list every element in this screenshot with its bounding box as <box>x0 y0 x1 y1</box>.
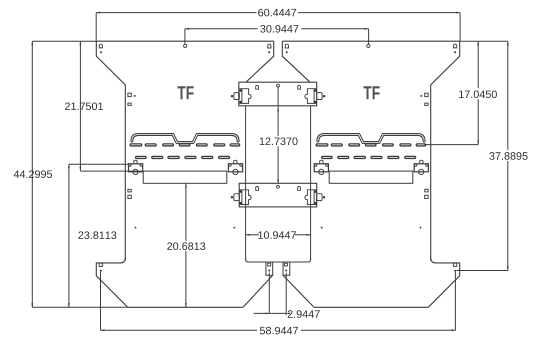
left step screw dot <box>100 270 102 272</box>
dim 21.7501 line <box>79 41 81 171</box>
neck column left wall <box>245 106 247 260</box>
dim 21.7501 text <box>65 102 103 110</box>
middle block clip inner bar <box>313 190 315 204</box>
middle block clip outer dot <box>323 196 325 198</box>
left edge lower mark 2 <box>128 195 131 198</box>
dim 37.8895 line bottom seg <box>507 161 509 271</box>
center tab right dot <box>285 270 287 272</box>
dim 30.9447 ext left <box>184 29 186 45</box>
dim 37.8895 top ext <box>478 40 508 42</box>
left wing inner belt clamp body <box>228 164 242 172</box>
dim 17.0450 arrow top <box>477 41 479 45</box>
dim 17.0450 text <box>459 90 497 98</box>
dim 2.9447 arrow right <box>286 312 290 314</box>
right plate hole dot B <box>321 227 323 229</box>
right wing outer belt clamp right hole <box>426 164 429 167</box>
right wing inner belt clamp body <box>314 164 328 172</box>
middle block block screw hole right <box>298 187 301 191</box>
dim 60.4447 line right seg <box>298 12 460 14</box>
dim 60.4447 ext left <box>95 13 97 42</box>
dim 20.6813 line bottom seg <box>185 251 187 307</box>
middle block clip frame <box>305 190 317 205</box>
dim 37.8895 arrow top <box>507 41 509 45</box>
dim 21.7501 ext <box>80 170 143 172</box>
part outline: right foot bottom edge <box>314 306 429 308</box>
left wing outer belt clamp top tab <box>134 160 137 164</box>
right wing dashed slot row 2 <box>323 156 415 159</box>
left wing pocket rectangle <box>143 171 227 183</box>
left edge mark slot <box>128 103 131 105</box>
dim 30.9447 arrow right <box>365 28 369 30</box>
right wing inner belt clamp bottom circle <box>319 169 324 174</box>
left wing inner belt clamp bottom circle <box>233 169 238 174</box>
middle block clip corner square top <box>314 190 317 193</box>
neck column right wall <box>310 106 312 260</box>
dim 44.2995 arrow top <box>31 41 33 45</box>
dim 58.9447 line right seg <box>301 329 456 331</box>
left edge lower mark 1 <box>128 189 131 192</box>
dim 12.7370 arrow top <box>277 107 279 111</box>
dim 60.4447 ext right <box>459 13 461 42</box>
right wing outer belt clamp body <box>414 164 428 172</box>
top block clip corner square top <box>240 89 243 92</box>
gap-left screw dot <box>268 51 270 53</box>
dim 12.7370 text <box>260 137 298 145</box>
dim 37.8895 arrow bottom <box>507 267 509 271</box>
dim 58.9447 arrow left <box>101 329 105 331</box>
bottom cup outline <box>246 258 311 262</box>
dim 58.9447 arrow right <box>452 329 456 331</box>
dim 23.8113 arrow bottom <box>68 303 70 307</box>
top edge hole right <box>367 44 370 47</box>
left wing dashed slot row 2 <box>137 156 229 159</box>
dim 60.4447 text <box>258 9 296 17</box>
left edge mark dot <box>134 95 136 97</box>
dim 58.9447 text <box>260 327 298 335</box>
dim 23.8113 arrow top <box>68 164 70 168</box>
dim 44.2995 top ext <box>32 40 96 42</box>
dim 44.2995 arrow bottom <box>31 303 33 307</box>
middle bearing block outline <box>239 183 317 207</box>
right edge lower mark 1 <box>425 189 428 192</box>
dim 30.9447 text <box>260 25 298 33</box>
middle block clip inner bar <box>241 190 243 204</box>
dim 44.2995 bottom ext <box>32 306 128 308</box>
left wing inner belt clamp left hole <box>229 164 232 167</box>
dim 60.4447 arrow right <box>456 12 460 14</box>
part outline: right lower step <box>428 258 460 307</box>
dim 17.0450 line top seg <box>477 41 479 88</box>
dim 58.9447 line left seg <box>101 329 258 331</box>
top block clip frame <box>239 89 251 104</box>
top-left corner screw dot <box>100 51 102 53</box>
middle block clip outer dot <box>231 196 233 198</box>
center tab left dot <box>268 270 270 272</box>
top block block screw hole left <box>256 85 259 89</box>
dim 44.2995 line <box>31 41 33 307</box>
right wing inner belt clamp top tab <box>320 160 323 164</box>
dim 10.9447 line right seg <box>295 234 311 236</box>
top-right corner screw square <box>454 44 457 48</box>
dim 10.9447 line left seg <box>246 234 259 236</box>
part outline: right upper corner + chamfer <box>431 41 460 260</box>
top block block screw hole right <box>298 85 301 89</box>
right step screw square <box>454 263 457 266</box>
dim 21.7501 arrow top <box>79 41 81 45</box>
middle block clip ear <box>234 194 240 201</box>
right step screw dot <box>454 270 456 272</box>
top block block center hole <box>277 84 280 87</box>
top block clip corner square top <box>314 89 317 92</box>
left plate hole dot B <box>233 227 235 229</box>
left plate hole dot A <box>135 227 137 229</box>
dim 12.7370 arrow bottom <box>277 179 279 183</box>
left wing outer belt clamp body <box>129 164 143 172</box>
right wing outer belt clamp bottom circle <box>419 169 424 174</box>
top block clip outer dot <box>323 95 325 97</box>
top block clip ear <box>234 93 240 100</box>
right wing outer belt clamp left hole <box>414 164 417 167</box>
right plate hole dot A <box>420 227 422 229</box>
dim 37.8895 bottom ext <box>456 270 508 272</box>
right wing pocket rectangle <box>329 171 413 183</box>
dim 10.9447 arrow right <box>307 234 311 236</box>
center tab right <box>283 262 290 275</box>
dim 30.9447 ext right <box>368 29 370 45</box>
left wing outer belt clamp right hole <box>140 164 143 167</box>
top edge hole left <box>184 44 187 47</box>
dim 2.9447 line <box>254 312 287 314</box>
gap-right screw dot <box>286 51 288 53</box>
dim 2.9447 ext right <box>285 273 287 316</box>
right wing outer belt clamp top tab <box>420 160 423 164</box>
top block clip frame <box>305 89 317 104</box>
right edge mark slot <box>425 103 428 105</box>
top block clip outer dot <box>231 95 233 97</box>
dim 37.8895 text <box>489 152 527 160</box>
part outline: center gap right edge <box>282 41 310 82</box>
left wing outer belt clamp left hole <box>129 164 132 167</box>
right edge mark dot <box>420 95 422 97</box>
dim 17.0450 top ext <box>460 40 479 42</box>
center tab left square <box>268 263 271 266</box>
top block clip inner bar <box>313 89 315 103</box>
label TF right <box>363 86 379 99</box>
dim 10.9447 arrow left <box>246 234 250 236</box>
dim 2.9447 ext left <box>268 273 270 314</box>
right edge mark square <box>425 93 428 96</box>
dim 60.4447 line left seg <box>96 12 256 14</box>
part outline: top edge right half <box>282 40 459 42</box>
dim 37.8895 line top seg <box>507 41 509 150</box>
dim 17.0450 bottom ext <box>424 144 478 146</box>
right wing dashed slot row 1 <box>317 143 425 146</box>
dim 2.9447 arrow left <box>265 312 269 314</box>
gap-left screw square <box>268 44 271 48</box>
top block clip corner square bottom <box>314 101 317 104</box>
middle block clip corner square top <box>240 190 243 193</box>
part outline: top edge left half <box>96 40 273 42</box>
left wing curved slot (staple) core <box>132 135 238 143</box>
dim 17.0450 arrow bottom <box>477 141 479 145</box>
dim 20.6813 arrow top <box>185 183 187 187</box>
left step screw square <box>99 263 102 266</box>
dim 23.8113 line <box>68 164 70 307</box>
dim 2.9447 text <box>288 310 320 318</box>
center tab left <box>266 262 273 275</box>
part outline: left foot bottom edge <box>128 306 244 308</box>
label TF left <box>177 86 193 99</box>
center diagonal right <box>283 275 314 307</box>
dim 12.7370 line bottom seg <box>277 146 279 183</box>
middle block clip corner square bottom <box>314 202 317 205</box>
part outline: left lower step <box>96 258 128 307</box>
middle block block screw hole left <box>256 187 259 191</box>
dim 30.9447 arrow left <box>185 28 189 30</box>
left wing curved slot (staple) outline <box>132 135 238 143</box>
right wing inner belt clamp left hole <box>314 164 317 167</box>
dim 58.9447 ext left <box>100 272 102 330</box>
top-right corner screw dot <box>454 51 456 53</box>
dim 30.9447 line right seg <box>301 28 368 30</box>
dim 30.9447 line left seg <box>185 28 258 30</box>
dim 23.8113 text <box>78 231 116 239</box>
center diagonal left <box>243 275 272 307</box>
top block clip corner square bottom <box>240 101 243 104</box>
right wing curved slot (staple) outline <box>318 135 424 143</box>
dim 12.7370 line top seg <box>277 87 279 136</box>
right wing curved slot (staple) core <box>318 135 424 143</box>
left edge mark square <box>128 93 131 96</box>
left wing inner belt clamp right hole <box>240 164 243 167</box>
dim 20.6813 arrow bottom <box>185 303 187 307</box>
middle block block center hole <box>277 185 280 188</box>
middle block clip ear <box>317 194 323 201</box>
top bearing block outline <box>239 82 317 106</box>
dim 21.7501 arrow bottom <box>79 167 81 171</box>
top-left corner screw square <box>99 44 102 48</box>
left wing outer belt clamp bottom circle <box>133 169 138 174</box>
part outline: center gap left edge <box>246 41 274 82</box>
left wing inner belt clamp top tab <box>234 160 237 164</box>
middle block clip frame <box>239 190 251 205</box>
middle block clip corner square bottom <box>240 202 243 205</box>
top block clip inner bar <box>241 89 243 103</box>
center tab right square <box>284 263 287 266</box>
part outline: left upper corner + chamfer <box>96 41 125 260</box>
gap-right screw square <box>285 44 288 48</box>
dim 10.9447 text <box>258 231 296 239</box>
dim 44.2995 text <box>14 170 52 178</box>
dim 60.4447 arrow left <box>96 12 100 14</box>
dim 58.9447 ext right <box>454 272 456 330</box>
dim 23.8113 ext <box>69 163 129 165</box>
dim 20.6813 line top seg <box>185 183 187 240</box>
top block clip ear <box>317 93 323 100</box>
dim 17.0450 line bottom seg <box>477 99 479 144</box>
left wing dashed slot row 1 <box>131 143 239 146</box>
dim 20.6813 text <box>167 242 205 250</box>
right wing inner belt clamp right hole <box>326 164 329 167</box>
right edge lower mark 2 <box>425 195 428 198</box>
